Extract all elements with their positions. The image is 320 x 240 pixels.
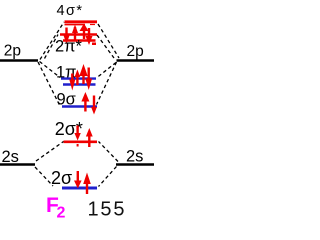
electron up arrow on 2sigma* [86,128,93,147]
svg-text:155: 155 [88,199,127,221]
electron down arrow 1 on 2pi* [63,28,70,45]
electron up arrow 2 on 1pi [79,64,87,84]
svg-text:2p: 2p [4,43,21,60]
electron down arrow on 2sigma [74,171,82,189]
electron up arrow on 2sigma [83,173,91,195]
level 2sigma (blue) [62,187,97,190]
dashed correlation line: 2s right to 2sigma* [99,142,119,162]
svg-text:2p: 2p [127,43,144,60]
electron up arrow 2 on 2pi* [80,24,89,40]
level 2p left (black) [0,59,38,62]
svg-text:2: 2 [57,205,66,222]
dashed correlation line: 2s left to 2sigma* [36,142,64,162]
svg-text:4σ*: 4σ* [57,3,84,19]
dashed correlation line: 2p right to 3sigma [97,62,117,105]
level 2p right (black) [117,59,155,62]
dashed correlation line: 2p left to 1pi [40,62,61,78]
dashed correlation line: 2s left to 2sigma [35,167,53,186]
dashed correlation line: 2s right to 2sigma [99,167,117,187]
dashed correlation line: 2p left to 2pi* [45,35,59,59]
level 2sigma* (antibonding, red) [64,141,98,144]
electron down arrow 2 on 2pi* [86,28,93,45]
svg-text:2σ: 2σ [51,168,72,188]
level 2s right (black) [116,163,154,166]
dashed correlation line: 2p left to 4sigma* [40,22,64,60]
electron down arrow 1 on 1pi [69,74,75,91]
level 1pi line A (blue) [61,77,96,79]
svg-text:2π*: 2π* [55,38,83,56]
electron up arrow on 3sigma [81,92,89,112]
dashed correlation line: 2p right to 1pi [97,63,116,78]
level 4sigma* (antibonding, red) [65,22,98,25]
electron down arrow on 2sigma* [74,126,80,147]
electron up arrow 1 on 2pi* [72,25,78,41]
svg-text:2s: 2s [126,148,143,166]
dashed correlation line: 2p right to 4sigma* [98,24,119,58]
level 3sigma (blue) [62,105,97,108]
level 2pi* line A (red) [60,33,97,36]
svg-text:2s: 2s [2,148,19,166]
level 2pi* line B (red) [63,39,96,42]
dashed correlation line: 2p left to 3sigma [38,62,60,105]
level 2s left (black) [0,163,35,166]
electron up arrow 1 on 1pi [75,70,81,86]
level 1pi line B (blue) [63,83,96,85]
stray red blob right of 2pi* label [92,43,96,46]
electron down arrow 2 on 1pi [85,68,92,91]
dashed correlation line: 2p right to 2pi* [97,35,114,58]
electron down arrow on 3sigma [91,96,97,115]
